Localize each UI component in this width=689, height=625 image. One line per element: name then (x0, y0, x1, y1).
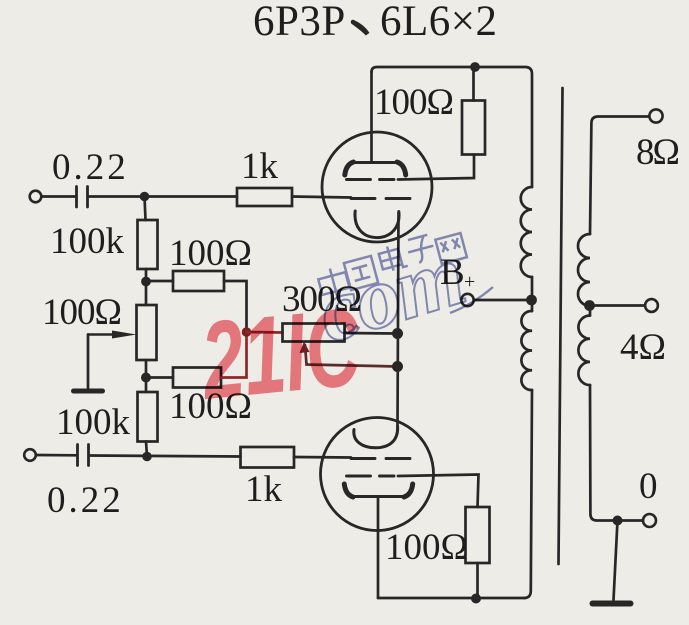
node (top rail junction) (470, 62, 480, 72)
svg-text:0.22: 0.22 (47, 480, 124, 521)
wire (472, 67, 475, 101)
svg-text:4Ω: 4Ω (620, 327, 666, 368)
wire bottom rail (378, 597, 525, 600)
wire (42, 195, 76, 198)
wire (145, 269, 148, 305)
node ground tap (613, 516, 623, 526)
svg-text:100k: 100k (56, 402, 131, 443)
R7 wiper arrow (88, 333, 114, 335)
wire (145, 360, 148, 392)
svg-text:100Ω: 100Ω (374, 82, 453, 123)
svg-text:100Ω: 100Ω (169, 233, 252, 274)
wire to ground (614, 521, 618, 601)
wire (146, 376, 173, 379)
wire (531, 277, 534, 311)
watermark dot of .com (345, 325, 354, 334)
left divider network vertical wire (145, 197, 146, 221)
input terminal J1 (top) (30, 191, 42, 203)
node bottom rail junction (471, 594, 481, 604)
transformer core (559, 88, 563, 564)
svg-text:100k: 100k (50, 221, 125, 262)
transformer T1 primary lower (521, 311, 532, 390)
V1 screen grid (dashed) (347, 178, 395, 181)
wire (146, 442, 147, 457)
wire primary bottom (524, 390, 532, 598)
watermark glyph zhong (316, 265, 351, 302)
wire top rail (372, 67, 533, 187)
node D (141, 373, 151, 383)
input terminal J2 (bottom) (24, 449, 36, 461)
capacitor C1 0.22 (75, 187, 78, 208)
resistor R4 100ohm (bottom screen) (466, 507, 490, 563)
transformer secondary top wire to 8 ohm (590, 117, 649, 235)
svg-text:0.22: 0.22 (52, 147, 129, 188)
node A (top input junction) (140, 192, 150, 202)
node F (392, 328, 403, 339)
V1 screen lead (398, 155, 474, 180)
resistor R3 100ohm (top screen) (462, 101, 485, 155)
wire to tube grid (294, 456, 351, 459)
resistor R1 1k (top) (237, 188, 292, 206)
label B+ (440, 252, 475, 293)
wire (476, 563, 479, 599)
wire (221, 332, 247, 378)
svg-text:1k: 1k (241, 146, 279, 187)
terminal 0 (643, 514, 656, 527)
node H (bottom input junction) (142, 452, 152, 462)
V2 anode lead (377, 497, 380, 599)
node B+ tap (526, 295, 537, 306)
watermark glyph dian (377, 243, 408, 274)
wire 4 ohm (590, 304, 646, 307)
V2 screen grid (dashed) (347, 475, 395, 478)
tube V2 (bottom) envelope (321, 418, 434, 531)
wire (36, 454, 77, 457)
watermark glyph guo (344, 256, 378, 290)
V1 control grid (dashed) (351, 197, 415, 200)
resistor R9 100ohm (bottom horizontal) (173, 368, 221, 388)
V2 screen lead (398, 475, 479, 508)
potentiometer R7 100ohm (vertical) (137, 305, 157, 360)
node G (392, 361, 403, 372)
R10 wiper (305, 345, 398, 367)
node E (divider mid junction) (242, 327, 252, 337)
wire (89, 195, 238, 198)
watermark zhongguo dianzi wang (blue outline glyphs) (306, 227, 493, 362)
potentiometer R10 300ohm (247, 331, 283, 334)
wire B+ (474, 299, 532, 302)
svg-text:+: + (464, 271, 475, 293)
wire secondary bottom to 0 terminal (590, 385, 643, 521)
svg-text:100Ω: 100Ω (42, 292, 121, 333)
ideographic comma in title (353, 22, 368, 34)
ground (left) (74, 389, 103, 394)
wire (345, 332, 398, 335)
V1 cathode lead / common cathode wire (398, 213, 399, 426)
wire (589, 306, 592, 316)
resistor R5 100k (top) (138, 220, 158, 269)
svg-text:6P3P: 6P3P (253, 0, 346, 45)
transformer secondary lower (578, 316, 590, 386)
watermark m swash (450, 287, 493, 313)
svg-text:1k: 1k (245, 469, 283, 510)
node 4 ohm tap (584, 300, 595, 311)
svg-text:8Ω: 8Ω (636, 132, 679, 173)
wire (90, 456, 241, 457)
V2 cathode (354, 427, 398, 448)
ground (593, 601, 631, 607)
terminal B+ (461, 294, 473, 306)
V1 anode (352, 161, 399, 164)
wire wiper to ground (87, 335, 90, 389)
node C (141, 277, 151, 287)
wire to tube grid (292, 197, 351, 198)
V1 anode lead (370, 72, 373, 163)
svg-text:6L6×2: 6L6×2 (380, 0, 498, 45)
resistor R2 1k (bottom) (241, 447, 295, 468)
capacitor C2 0.22 (76, 445, 79, 466)
terminal 4 ohm (645, 299, 658, 312)
tube V1 (top, 6P3P/6L6) envelope (322, 132, 432, 242)
resistor R8 100ohm (top horizontal) (173, 271, 224, 291)
terminal 8 ohm (649, 109, 662, 122)
watermark glyph zi (405, 234, 437, 265)
title 6P3P、6L6×2 (253, 0, 498, 45)
V2 control grid (dashed) (351, 457, 415, 460)
svg-text:100Ω: 100Ω (385, 527, 468, 568)
V2 anode (352, 495, 405, 498)
V1 cathode (355, 211, 399, 238)
watermark 21IC (red) (195, 285, 367, 423)
wire (146, 280, 173, 283)
transformer T1 primary upper (521, 187, 532, 277)
watermark glyph wang (435, 233, 467, 264)
svg-text:0: 0 (639, 466, 658, 507)
resistor R6 100k (bottom) (138, 392, 158, 442)
wire (224, 281, 247, 332)
transformer secondary upper (578, 234, 590, 306)
